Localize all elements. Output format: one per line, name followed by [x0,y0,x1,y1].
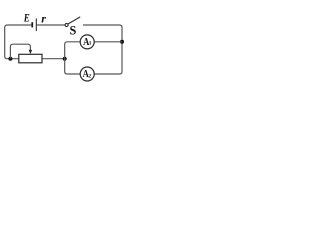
wire: battery positive plate to switch [37,24,65,26]
node: middle junction dot (rheostat right / A1 / A2 split) [63,57,67,61]
ammeter A2 [80,67,94,81]
wire: switch to top-right corner, down right side to bottom-right corner [83,25,122,74]
rheostat R (resistor box) [19,54,42,63]
svg-text:1: 1 [89,41,92,47]
svg-text:E: E [23,12,30,24]
battery E,r (cell U1): short thick negative plate [31,22,33,27]
wire: bottom wire, rheostat right terminal to middle junction [42,58,65,60]
switch S: open blade [68,17,80,24]
node: junction dot right side (A1 row meets right vertical) [120,40,124,44]
wire: ammeter A1 right side to right junction dot [94,41,122,43]
wire: middle junction down and right to ammeter A2 [65,59,81,74]
svg-text:S: S [70,23,77,38]
wire: middle junction up and right to ammeter A1 [65,42,80,59]
battery E,r (cell U1): long thin positive plate [36,18,37,31]
rheostat wiper arrowhead [29,50,33,54]
svg-text:r: r [41,12,46,26]
switch S: pivot circle [65,24,68,27]
ammeter A1 [80,35,94,49]
svg-text:2: 2 [88,73,91,79]
wire: slider branch from bottom-wire junction up over to rheostat wiper [10,44,30,59]
wire: top-left from battery to left corner and down left side to bottom wire [5,25,32,59]
node: junction dot on bottom wire for slider branch [8,57,12,61]
